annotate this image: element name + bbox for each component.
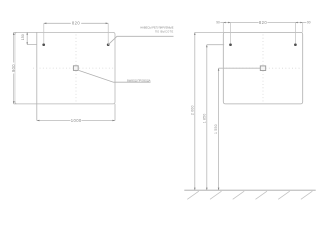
svg-text:ВЫВОД ПРОВОДА: ВЫВОД ПРОВОДА [127,78,151,82]
svg-text:90: 90 [216,21,220,25]
dim 150 bottom extension [27,44,37,46]
svg-text:1 550: 1 550 [214,124,218,134]
dim 1550 top extension [219,67,261,69]
dim 1850 top extension [207,44,224,46]
ext dot right top [294,23,296,44]
svg-text:2 000: 2 000 [190,105,194,115]
svg-text:820: 820 [259,20,268,25]
floor hatch 3 [233,191,245,199]
dim 820 extension left [43,23,45,43]
dim 2000 top extension [195,31,224,33]
hanger dot left [42,43,45,46]
dim 820 line left view [44,22,71,24]
top dim line wall view [220,22,258,24]
centerline horizontal wall view [226,67,304,69]
centerline horizontal left view [33,67,114,69]
hanger dot wall right [294,43,297,46]
svg-text:ПО ВЫСОТЕ: ПО ВЫСОТЕ [155,30,173,34]
mirror inner left edge line [36,32,38,120]
floor hatch 4 [256,191,268,199]
mirror outline left edge faint overlay [14,35,16,101]
dim 900 line [13,32,15,62]
floor hatch 2 [210,191,222,199]
hanger dot right [107,43,110,46]
svg-text:1 850: 1 850 [202,114,206,124]
dim 1550 line [218,68,220,190]
hangers leader line [108,36,173,44]
dim 1550 arrows [218,68,220,190]
top dim ticks [223,22,302,24]
dim 1000 line [37,120,71,122]
floor hatch 1 [187,191,199,199]
mirror outline wall view [223,32,302,104]
wire outlet square left view [73,66,78,71]
dim 900 bottom extension [14,103,17,105]
dim 150 line [26,32,28,44]
dim 820 arrows [44,23,108,25]
dim 2000 line [194,32,196,190]
floor hatch 5 [278,191,290,199]
mirror outline left view [15,32,115,104]
centerline vertical wall view [262,35,264,103]
svg-text:150: 150 [21,34,25,40]
ext rect right top [302,23,304,33]
dim 1850 line [206,45,208,191]
dim 1000 arrows [37,120,115,122]
dim 1000 right extension [114,104,116,121]
dim 900 arrows [13,32,15,104]
floor line [184,189,315,191]
floor hatch 6 [301,191,313,199]
svg-text:820: 820 [72,21,81,26]
dim 2000 arrows [194,32,196,190]
dim 900 top extension [14,31,17,33]
wire outlet leader [79,71,151,83]
svg-text:90: 90 [307,21,311,25]
wire outlet square wall view [260,66,265,71]
dim 150 arrows [26,32,28,44]
svg-text:900: 900 [11,64,16,72]
dim 820 extension right [107,23,109,43]
ext rect left top [222,23,224,33]
svg-text:1000: 1000 [71,118,82,123]
centerline vertical left view [75,35,77,103]
dim 1850 arrows [206,45,208,191]
hanger dot wall left [229,43,232,46]
ext dot left top [230,23,232,44]
svg-text:НАВЕСЫ РЕГУЛИРУЕМЫЕ: НАВЕСЫ РЕГУЛИРУЕМЫЕ [140,26,173,30]
